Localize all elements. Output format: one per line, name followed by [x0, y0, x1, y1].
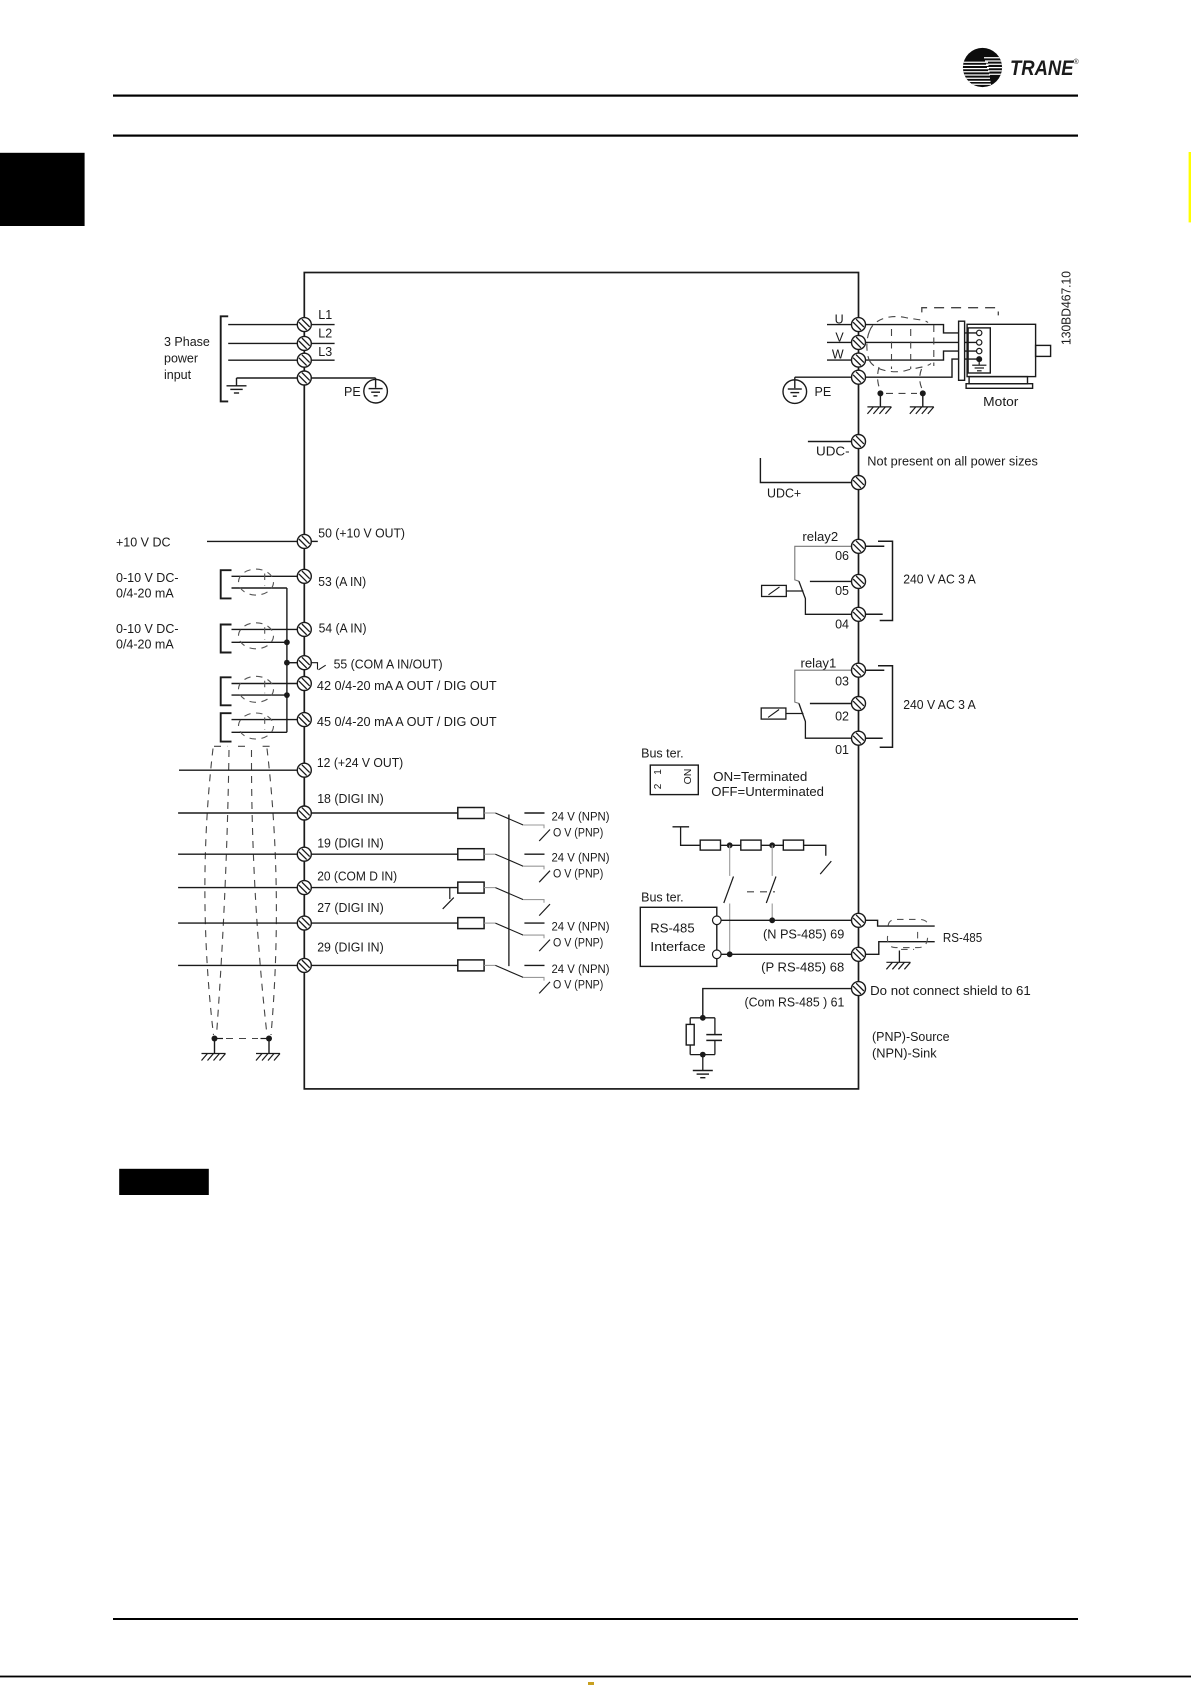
resistor 29 [458, 960, 484, 971]
tiny footer mark [588, 1682, 594, 1685]
chassis ground (control cable left) [202, 1054, 226, 1061]
motor flange [959, 321, 965, 380]
RS-485 shield ground [898, 951, 900, 963]
PE earth circle (right) [783, 380, 807, 404]
termination resistor R3 [783, 840, 803, 850]
wire 19 to resistor [311, 853, 458, 855]
svg-text:3 Phase: 3 Phase [164, 335, 210, 349]
terminal 42 [297, 677, 311, 691]
terminal 03 [852, 663, 866, 677]
wire PE to motor [866, 359, 977, 377]
wire L2 [228, 342, 297, 344]
svg-text:130BD467.10: 130BD467.10 [1059, 271, 1074, 345]
wire 42 signal [232, 683, 298, 685]
svg-text:12 (+24 V OUT): 12 (+24 V OUT) [317, 756, 403, 770]
wire 45 signal [232, 719, 298, 721]
dashed link between drains [226, 1038, 258, 1040]
motor base [969, 377, 1027, 384]
wire +10V [207, 540, 297, 542]
wire 53 return [232, 587, 287, 589]
motor pin 2 [977, 340, 982, 345]
relay1 coil [761, 708, 786, 719]
wire 18 to resistor [311, 812, 458, 814]
relay2 switch arm [799, 581, 852, 614]
motor pin 3 [977, 348, 982, 353]
RS-485 shield dashes [887, 919, 928, 949]
svg-text:ON: ON [682, 769, 694, 785]
svg-text:02: 02 [835, 710, 849, 724]
terminal U [852, 318, 866, 332]
svg-text:O V (PNP): O V (PNP) [553, 935, 603, 949]
cable drain dot left [877, 390, 883, 396]
svg-text:®: ® [1074, 58, 1080, 66]
svg-text:0-10 V DC-: 0-10 V DC- [116, 622, 179, 636]
svg-text:RS-485: RS-485 [943, 931, 982, 945]
RC junction bottom [700, 1052, 706, 1058]
terminal 01 [852, 731, 866, 745]
page bottom rule [0, 1676, 1191, 1678]
svg-text:Not present on all power sizes: Not present on all power sizes [867, 455, 1038, 469]
wire 20 to resistor [311, 887, 458, 889]
cable shield dashed envelope [867, 317, 934, 394]
terminal PE left [297, 371, 311, 385]
terminal 19 [297, 847, 311, 861]
junction 68 [727, 951, 733, 957]
junction 54 return [284, 639, 290, 645]
switch arm 18 [495, 813, 523, 825]
wire 27 left [178, 922, 297, 924]
svg-text:relay1: relay1 [801, 657, 837, 671]
wire V to motor [866, 341, 977, 343]
terminal 05 [852, 574, 866, 588]
wire V inside [827, 341, 852, 343]
switch common bus [508, 815, 510, 967]
wire PE input [237, 377, 298, 379]
wire W to motor [866, 351, 977, 360]
terminal UDC- [852, 435, 866, 449]
terminal 68 [852, 947, 866, 961]
chassis ground (motor cable right) [910, 407, 934, 414]
RC network junction top [700, 1015, 706, 1021]
svg-text:PE: PE [344, 385, 361, 399]
contact 24V 18 [524, 812, 544, 814]
relay1 external stubs [866, 669, 885, 671]
relay1 load bracket [878, 666, 893, 748]
svg-text:(P RS-485) 68: (P RS-485) 68 [761, 961, 844, 975]
terminal L2 [297, 336, 311, 350]
svg-text:18 (DIGI IN): 18 (DIGI IN) [317, 792, 384, 806]
wire 54 return [232, 641, 287, 643]
svg-text:Motor: Motor [983, 395, 1018, 409]
wire R2-R3 [761, 844, 783, 846]
svg-text:45 0/4-20 mA A OUT / DIG OUT: 45 0/4-20 mA A OUT / DIG OUT [317, 715, 497, 729]
svg-text:UDC-: UDC- [816, 445, 850, 459]
chassis ground (motor cable left) [867, 407, 891, 414]
svg-text:O V (PNP): O V (PNP) [553, 825, 603, 839]
relay2 common wire from 06 [795, 546, 852, 581]
fan curve outer-left [205, 749, 214, 1036]
svg-text:24 V (NPN): 24 V (NPN) [552, 810, 610, 824]
resistor 27 [458, 918, 484, 929]
terminal 29 [297, 958, 311, 972]
shield 42 [239, 676, 274, 702]
svg-text:04: 04 [835, 618, 849, 632]
svg-text:240 V AC 3 A: 240 V AC 3 A [903, 572, 976, 586]
contact 24V 29 [524, 964, 544, 966]
ground IEC (input) [227, 386, 247, 393]
PE input earth stub [236, 378, 238, 386]
wire UDC+ [760, 458, 851, 483]
outer dashed shield boundary [922, 308, 999, 316]
terminal PE right [852, 370, 866, 384]
wire 19 left [178, 853, 297, 855]
label 55 leader [311, 663, 326, 670]
junction 69 [769, 917, 775, 923]
wire 69 [721, 919, 851, 921]
switch arm 29 [495, 965, 523, 977]
svg-text:20 (COM D IN): 20 (COM D IN) [317, 870, 397, 884]
svg-text:RS-485: RS-485 [650, 922, 694, 936]
svg-text:240 V AC 3 A: 240 V AC 3 A [903, 698, 976, 712]
wire UDC- [808, 441, 852, 443]
shield 54 [239, 623, 274, 649]
svg-text:Do not connect shield to 61: Do not connect shield to 61 [870, 984, 1031, 998]
svg-text:(Com RS-485 ) 61: (Com RS-485 ) 61 [745, 996, 845, 1010]
svg-text:24 V (NPN): 24 V (NPN) [552, 962, 610, 976]
svg-text:input: input [164, 368, 192, 382]
bracket 42 [221, 677, 232, 705]
wire 45 return [232, 731, 287, 733]
terminal 12 [297, 763, 311, 777]
svg-text:0-10 V DC-: 0-10 V DC- [116, 571, 179, 585]
svg-text:0/4-20 mA: 0/4-20 mA [116, 638, 174, 652]
wire 12 [179, 769, 297, 771]
wire 68 [721, 953, 851, 955]
relay1 NC wire 02 [810, 703, 852, 705]
svg-text:+10 V DC: +10 V DC [116, 536, 171, 550]
wire 27 to resistor [311, 922, 458, 924]
svg-text:50 (+10 V OUT): 50 (+10 V OUT) [318, 527, 405, 541]
header rule lower [113, 135, 1078, 137]
motor earth [978, 359, 980, 365]
svg-text:Bus ter.: Bus ter. [641, 891, 684, 905]
svg-text:03: 03 [835, 675, 849, 689]
terminal 53 [297, 569, 311, 583]
svg-text:O V (PNP): O V (PNP) [553, 867, 603, 881]
resistor 20 [458, 882, 484, 893]
terminal W [852, 353, 866, 367]
wire 53 signal [232, 575, 298, 577]
contact 24V 19 [524, 853, 544, 855]
wire 19 to switch [484, 853, 495, 855]
wire 42 return [232, 694, 287, 696]
terminal L1 [297, 318, 311, 332]
motor pin PE (filled) [976, 356, 982, 362]
termination resistor R2 [741, 840, 761, 850]
svg-text:(NPN)-Sink: (NPN)-Sink [872, 1047, 937, 1061]
footer section black tag [119, 1169, 209, 1195]
motor pin 1 [977, 330, 982, 335]
switch arm 19 [495, 854, 523, 866]
svg-text:24 V (NPN): 24 V (NPN) [552, 920, 610, 934]
RC resistor [689, 1018, 691, 1025]
terminal 55 [297, 656, 311, 670]
wire 55 [287, 662, 297, 664]
wire PE right inside [795, 376, 852, 378]
svg-text:53 (A IN): 53 (A IN) [318, 575, 366, 589]
relay2 coil [762, 585, 787, 596]
input bracket [221, 316, 229, 401]
svg-text:01: 01 [835, 743, 849, 757]
switch arm 27 [495, 923, 523, 935]
footer rule [113, 1618, 1078, 1620]
wire U inside [827, 324, 852, 326]
PE earth circle (left) [364, 379, 388, 403]
relay1 common wire from 03 [795, 670, 852, 703]
termination switch right [771, 845, 773, 876]
svg-text:power: power [164, 352, 198, 366]
svg-text:24 V (NPN): 24 V (NPN) [552, 851, 610, 865]
termination switch left [729, 845, 731, 876]
svg-text:(PNP)-Source: (PNP)-Source [872, 1030, 950, 1044]
DIP switch box [650, 765, 698, 795]
wire 54 signal [232, 628, 298, 630]
junction B [769, 842, 775, 848]
junction 42 return [284, 692, 290, 698]
wire 29 to switch [484, 964, 495, 966]
terminal 20 [297, 881, 311, 895]
svg-text:ON=Terminated: ON=Terminated [713, 770, 807, 784]
termination network top tee [673, 827, 701, 846]
wire 29 to resistor [311, 964, 458, 966]
common return bus vertical [286, 588, 288, 732]
wire L3 [228, 359, 297, 361]
terminal 50 [297, 534, 311, 548]
terminal 04 [852, 607, 866, 621]
fan curve inner-left [217, 750, 230, 1035]
shield 53 [239, 569, 274, 595]
svg-text:1: 1 [653, 769, 664, 775]
RS-485 twisted pair out [866, 920, 935, 926]
svg-text:OFF=Unterminated: OFF=Unterminated [711, 785, 824, 799]
header rule upper [113, 95, 1078, 97]
switch stub on 20 [449, 888, 451, 900]
wire 29 left [178, 964, 297, 966]
svg-text:relay2: relay2 [802, 530, 838, 544]
wire 27 to switch [484, 922, 495, 924]
junction 55 [284, 660, 290, 666]
wire U to motor [866, 325, 977, 333]
wire W inside [827, 359, 852, 361]
terminal 54 [297, 622, 311, 636]
svg-text:06: 06 [835, 549, 849, 563]
motor shaft [1036, 345, 1051, 356]
svg-text:L3: L3 [318, 345, 332, 359]
terminal L3 [297, 353, 311, 367]
drain dot right [266, 1036, 272, 1042]
chassis ground (control cable right) [256, 1054, 280, 1061]
motor body [967, 324, 1036, 376]
right edge tab (yellow) [1189, 152, 1191, 222]
relay1 switch arm [799, 703, 852, 738]
shield 45 [239, 713, 274, 739]
wire 20 left [178, 887, 297, 889]
motor terminal box [968, 328, 990, 373]
terminal 69 [852, 913, 866, 927]
terminal 06 [852, 539, 866, 553]
ground IEC (RC) [693, 1071, 713, 1078]
svg-text:TRANE: TRANE [1010, 56, 1074, 80]
svg-text:O V (PNP): O V (PNP) [553, 978, 603, 992]
svg-text:Interface: Interface [650, 940, 705, 954]
terminal 61 [852, 982, 866, 996]
bracket 54 [221, 625, 232, 653]
svg-text:PE: PE [815, 385, 832, 399]
bracket 53 [221, 570, 232, 598]
svg-text:Bus ter.: Bus ter. [641, 747, 684, 761]
RS-485 interface box [640, 907, 717, 966]
svg-text:54 (A IN): 54 (A IN) [319, 622, 367, 636]
resistor 19 [458, 849, 484, 860]
drain dot left [212, 1036, 218, 1042]
interface pin N [713, 916, 722, 925]
RC bottom rail [690, 1054, 715, 1056]
svg-text:42 0/4-20 mA A OUT / DIG OUT: 42 0/4-20 mA A OUT / DIG OUT [317, 679, 497, 693]
wire 18 to switch [484, 812, 495, 814]
svg-text:29 (DIGI IN): 29 (DIGI IN) [317, 941, 384, 955]
left chapter tab (black) [0, 153, 85, 226]
terminal 02 [852, 697, 866, 711]
wire 61 [703, 989, 852, 1018]
fan curve outer-right [267, 749, 276, 1036]
wire PE to earth circle [311, 377, 375, 379]
terminal 45 [297, 713, 311, 727]
svg-text:05: 05 [835, 584, 849, 598]
switch arm 20 [495, 888, 523, 900]
wire L1 [228, 324, 297, 326]
svg-text:0/4-20 mA: 0/4-20 mA [116, 587, 174, 601]
resistor 18 [458, 808, 484, 819]
cable drain dot right [920, 390, 926, 396]
relay2 load bracket [878, 541, 893, 620]
terminal 18 [297, 806, 311, 820]
wire 20 to switch [484, 887, 495, 889]
svg-text:L1: L1 [318, 308, 332, 322]
svg-text:55 (COM A IN/OUT): 55 (COM A IN/OUT) [334, 658, 443, 672]
terminal 27 [297, 916, 311, 930]
svg-text:27 (DIGI IN): 27 (DIGI IN) [317, 901, 384, 915]
terminal UDC+ [852, 476, 866, 490]
interface pin P [713, 950, 722, 959]
svg-text:2: 2 [653, 783, 664, 789]
fan cap dashes [214, 745, 227, 747]
wire R1-R2 [721, 844, 741, 846]
wire R3 end + switch [804, 845, 826, 855]
bracket 45 [221, 713, 232, 741]
svg-text:(N PS-485) 69: (N PS-485) 69 [763, 928, 844, 942]
svg-text:UDC+: UDC+ [767, 486, 801, 500]
mechanical link dashes [747, 891, 775, 893]
terminal V [852, 335, 866, 349]
Trane logo globe [962, 48, 1003, 87]
RC capacitor [714, 1018, 716, 1035]
relay2 NC wire 05 [810, 580, 852, 582]
contact 24V 27 [524, 922, 544, 924]
relay2 external stubs [866, 545, 885, 547]
junction A [727, 842, 733, 848]
fan curve inner-right [251, 750, 267, 1035]
svg-text:19 (DIGI IN): 19 (DIGI IN) [317, 837, 384, 851]
wire 18 left [178, 812, 297, 814]
termination resistor R1 [700, 840, 720, 850]
svg-text:L2: L2 [318, 327, 332, 341]
